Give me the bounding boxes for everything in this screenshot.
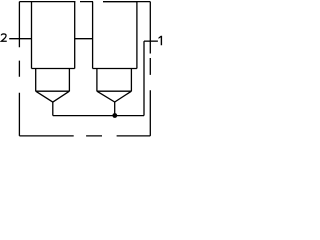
port 2 line — [9, 38, 31, 40]
valve V1 body rectangle — [32, 2, 75, 69]
valve V1 poppet cone — [36, 91, 70, 102]
enclosure dashed border: right side — [149, 2, 151, 136]
link wire between valve bodies — [75, 38, 93, 40]
valve V2 body rectangle — [93, 2, 137, 69]
valve V2 seat box — [97, 69, 131, 92]
enclosure dashed border: bottom side — [19, 135, 150, 137]
port label 1 — [159, 36, 163, 46]
port 1 riser wire — [143, 41, 145, 115]
enclosure dashed border: top side — [19, 1, 150, 3]
valve V1 seat box — [36, 69, 70, 92]
enclosure dashed border: left side — [18, 2, 20, 136]
wire: bottom bus from V1 outlet to port 1 riser — [53, 115, 144, 117]
valve V2 outlet stub — [114, 102, 116, 116]
valve V1 outlet stub — [52, 102, 54, 116]
junction node dot — [112, 113, 117, 118]
valve V2 poppet cone — [97, 91, 131, 102]
port label 2 — [1, 34, 7, 41]
port 1 line — [144, 40, 158, 42]
